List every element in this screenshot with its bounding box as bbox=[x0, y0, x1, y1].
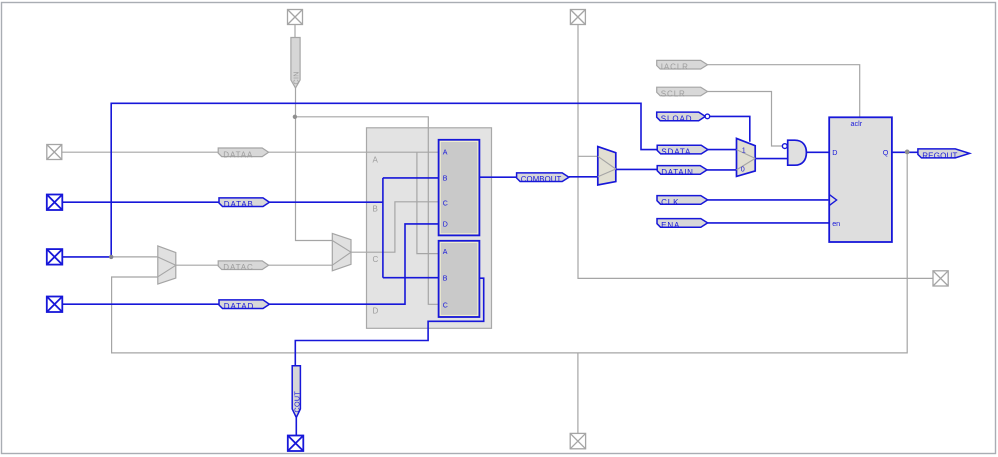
input port DATAD (blue) bbox=[219, 300, 269, 311]
io pad right (grey) bbox=[933, 271, 948, 286]
wire IACLR to register aclr top pin bbox=[708, 65, 860, 118]
wire SDATA port to sload mux input 1 bbox=[708, 149, 737, 151]
svg-text:A: A bbox=[373, 156, 379, 165]
wire pad3 to junction bbox=[62, 256, 111, 258]
io pad DATAD (blue) bbox=[47, 297, 63, 313]
svg-text:D: D bbox=[443, 222, 448, 229]
io pad top second (grey) bbox=[570, 10, 585, 25]
svg-text:CIN: CIN bbox=[292, 71, 301, 84]
wire SCLR to AND gate bubble bbox=[708, 92, 783, 147]
mux3 (blue, combout/feedback select) bbox=[598, 147, 616, 185]
svg-text:SDATA: SDATA bbox=[661, 148, 691, 157]
svg-text:D: D bbox=[832, 148, 837, 157]
wire DATAD port to upper LUT D input bbox=[269, 224, 439, 304]
svg-text:IACLR: IACLR bbox=[661, 63, 689, 72]
io pad DATAA (grey, left) bbox=[47, 145, 62, 160]
wire junction up and across top to SDATA port bbox=[111, 103, 657, 257]
wire DATAB port to LUT B inputs (upper and lower) bbox=[269, 201, 383, 203]
wire sload mux output to AND gate input bbox=[755, 158, 788, 160]
wire DATAIN port to sload mux input 0 bbox=[707, 169, 737, 171]
input port ENA (blue) bbox=[657, 219, 708, 230]
svg-text:DATAB: DATAB bbox=[224, 200, 254, 209]
output port REGOUT (blue) bbox=[918, 149, 970, 161]
wire junction to mux1 top input bbox=[111, 256, 158, 258]
wire DATAA port to upper LUT A input bbox=[269, 151, 440, 153]
svg-text:COUT: COUT bbox=[292, 391, 301, 413]
svg-text:DATAA: DATAA bbox=[223, 150, 253, 159]
svg-text:B: B bbox=[443, 176, 448, 183]
io pad SDATA source (blue) bbox=[47, 249, 63, 265]
wire CIN pad to wedge bbox=[294, 25, 296, 38]
svg-text:DATAIN: DATAIN bbox=[661, 168, 693, 177]
AND gate with inverted input (sclr gating) bbox=[782, 140, 806, 165]
wire top pad net down, branch to mux3 top input bbox=[578, 25, 933, 279]
junction dot REGOUT net bbox=[905, 150, 910, 155]
svg-text:1: 1 bbox=[742, 145, 746, 154]
svg-text:C: C bbox=[443, 303, 448, 310]
junction dot pad3 net bbox=[109, 255, 113, 259]
io pad bottom (grey) bbox=[570, 433, 585, 448]
wire DATAC port to mux2 bottom input bbox=[269, 264, 333, 266]
sload mux (blue) bbox=[737, 138, 756, 176]
wire DATAA pad to port bbox=[62, 151, 218, 153]
wire branch into mux3 bbox=[578, 155, 598, 157]
mux2 (grey, CIN/DATAC select) bbox=[332, 233, 351, 270]
wire branch down to bottom grey pad bbox=[577, 353, 579, 434]
wire lower LUT output (COUT net) to COUT wedge bbox=[295, 278, 483, 366]
svg-text:SLOAD: SLOAD bbox=[661, 114, 693, 123]
output wedge COUT (vertical, blue) bbox=[292, 366, 301, 418]
io pad CIN (top) bbox=[288, 10, 303, 25]
upper LUT box (blue selected) bbox=[439, 140, 480, 236]
svg-text:D: D bbox=[373, 307, 379, 316]
wire mux3 output to DATAIN port bbox=[616, 168, 657, 170]
svg-text:A: A bbox=[443, 150, 448, 157]
input port DATAB (blue) bbox=[219, 198, 269, 209]
junction dot CIN branch bbox=[293, 115, 297, 119]
wire DATAD pad to port bbox=[62, 303, 219, 305]
svg-text:CLK: CLK bbox=[661, 198, 679, 207]
wire mux2 output to upper LUT C input bbox=[351, 202, 440, 252]
input port DATAIN (blue) bbox=[657, 166, 707, 177]
input port DATAC (grey) bbox=[218, 261, 268, 272]
svg-text:DATAC: DATAC bbox=[223, 263, 253, 272]
svg-text:B: B bbox=[373, 205, 378, 214]
svg-text:DATAD: DATAD bbox=[224, 302, 254, 311]
input wedge CIN (vertical, grey) bbox=[291, 38, 301, 89]
wire AND gate output to register D bbox=[806, 151, 829, 153]
register (DFF with aclr/en) bbox=[829, 117, 892, 242]
io pad COUT (blue, bottom) bbox=[288, 436, 304, 452]
input port CLK (blue) bbox=[657, 196, 708, 207]
svg-text:C: C bbox=[443, 201, 448, 208]
svg-text:ENA: ENA bbox=[661, 221, 680, 230]
input port IACLR (grey) bbox=[657, 60, 708, 71]
input port SLOAD (blue) with bubble bbox=[657, 112, 710, 123]
mux1 (grey, feedback/DATAC select) bbox=[158, 246, 176, 284]
input port SDATA (blue) bbox=[657, 145, 708, 156]
svg-text:0: 0 bbox=[741, 165, 745, 174]
lower LUT box (blue selected) bbox=[439, 241, 480, 317]
svg-text:SCLR: SCLR bbox=[661, 90, 686, 99]
LUT outer block (grey) bbox=[367, 128, 492, 328]
svg-text:en: en bbox=[832, 219, 840, 228]
wire DATAA branch to lower LUT A input bbox=[417, 152, 440, 253]
input port DATAA (grey) bbox=[218, 148, 268, 159]
svg-text:Q: Q bbox=[883, 148, 889, 157]
wire DATAB pad to port bbox=[62, 201, 219, 203]
wire upper LUT output to COMBOUT port bbox=[479, 176, 516, 178]
svg-text:REGOUT: REGOUT bbox=[922, 152, 957, 161]
wire SLOAD bubble to sload mux select bbox=[710, 116, 750, 141]
io pad DATAB (blue) bbox=[47, 195, 63, 211]
wire CIN branch to lower LUT C input bbox=[295, 117, 440, 304]
wire CIN wedge tip down to junction and on to mux2 top input bbox=[296, 88, 333, 241]
svg-text:C: C bbox=[373, 255, 379, 264]
wire register Q to REGOUT port bbox=[892, 151, 918, 153]
wire ENA port to register en bbox=[708, 222, 830, 224]
wire COMBOUT port to mux3 bottom input bbox=[569, 176, 598, 178]
svg-text:COMBOUT: COMBOUT bbox=[521, 175, 562, 184]
svg-text:A: A bbox=[443, 249, 448, 256]
svg-text:B: B bbox=[443, 276, 448, 283]
input port SCLR (grey) bbox=[657, 87, 708, 98]
wire CLK port to register clock bbox=[708, 199, 829, 201]
output port COMBOUT (blue) bbox=[517, 173, 569, 184]
wire REGOUT feedback long loop to mux1 bottom input bbox=[112, 152, 908, 353]
svg-text:aclr: aclr bbox=[851, 119, 863, 128]
wire COUT wedge tip to pad bbox=[295, 418, 297, 436]
wire mux1 output to DATAC port bbox=[176, 264, 218, 266]
